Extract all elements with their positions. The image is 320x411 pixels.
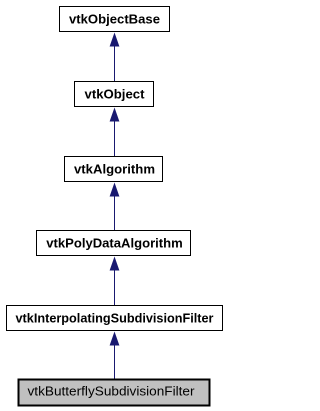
inheritance arrow vtkPolyDataAlgorithm -> vtkAlgorithm — [110, 183, 120, 231]
inheritance arrow vtkObject -> vtkObjectBase — [110, 33, 120, 82]
class box vtkObjectBase — [60, 7, 170, 32]
class box vtkPolyDataAlgorithm — [37, 231, 191, 256]
svg-text:vtkPolyDataAlgorithm: vtkPolyDataAlgorithm — [46, 236, 183, 251]
inheritance arrow vtkAlgorithm -> vtkObject — [110, 108, 120, 157]
class box vtkButterflySubdivisionFilter (current class, grey) — [19, 380, 210, 406]
class box vtkInterpolatingSubdivisionFilter — [7, 306, 223, 331]
class box vtkObject — [75, 82, 154, 107]
inheritance arrow vtkButterflySubdivisionFilter -> vtkInterpolatingSubdivisionFilter — [110, 332, 120, 379]
svg-text:vtkObject: vtkObject — [85, 87, 146, 102]
svg-text:vtkAlgorithm: vtkAlgorithm — [74, 162, 155, 177]
inheritance arrow vtkInterpolatingSubdivisionFilter -> vtkPolyDataAlgorithm — [110, 257, 120, 306]
svg-text:vtkInterpolatingSubdivisionFil: vtkInterpolatingSubdivisionFilter — [16, 311, 214, 326]
svg-text:vtkObjectBase: vtkObjectBase — [69, 12, 160, 27]
svg-text:vtkButterflySubdivisionFilter: vtkButterflySubdivisionFilter — [28, 383, 196, 398]
class box vtkAlgorithm — [65, 157, 163, 182]
